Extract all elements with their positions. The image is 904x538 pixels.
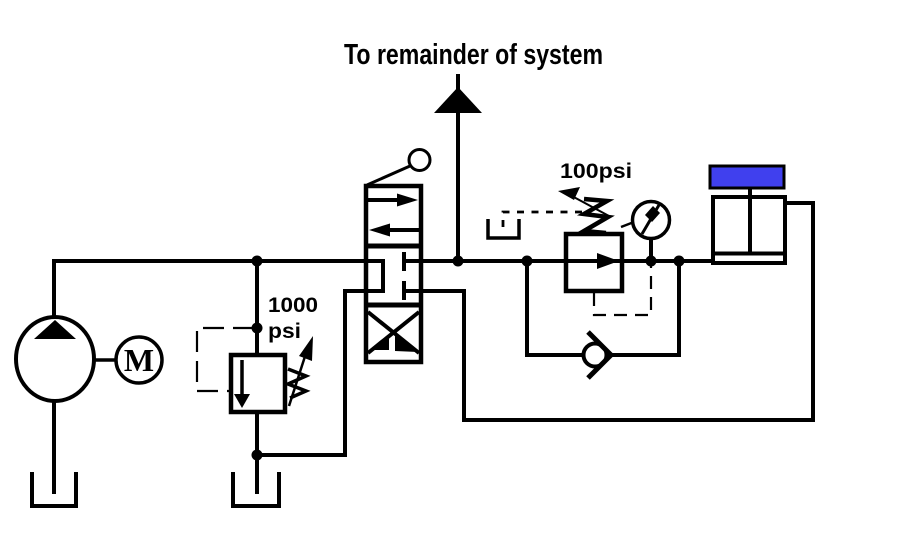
tank T3 (reducing valve drain) bbox=[488, 219, 519, 238]
drain line (dashed) of reducing valve bbox=[503, 212, 582, 231]
svg-text:1000: 1000 bbox=[268, 293, 318, 317]
arrowhead to remainder of system bbox=[434, 87, 482, 113]
wire: main line right of valve to cylinder cap port bbox=[421, 259, 713, 263]
relief valve adjustment arrow bbox=[289, 336, 313, 406]
directional valve DV1 lever bbox=[367, 150, 430, 186]
wire: pump to motor bbox=[94, 358, 116, 362]
node: bypass branch left bbox=[522, 256, 533, 267]
label: To remainder of system bbox=[344, 39, 603, 71]
label: 1000 psi bbox=[268, 293, 318, 343]
wire: bypass line with check valve bbox=[527, 261, 584, 355]
wire: main supply line left of valve bbox=[255, 259, 366, 263]
directional valve DV1 body bbox=[366, 186, 421, 362]
svg-text:To remainder of system: To remainder of system bbox=[344, 39, 603, 71]
label: 100psi bbox=[560, 159, 632, 183]
DV1 center position: blocked port A bbox=[404, 252, 421, 271]
pressure reducing valve PRV1 body bbox=[566, 234, 622, 291]
relief valve RV1 bbox=[231, 355, 285, 412]
relief valve spring bbox=[288, 369, 306, 398]
wire: pump outlet to main line corner bbox=[54, 261, 257, 317]
wire: relief valve branch bbox=[255, 261, 259, 355]
pressure reducing valve PRV1 spring bbox=[584, 199, 608, 233]
wire: valve port B to cylinder rod end bbox=[421, 203, 813, 420]
cylinder CYL1 load (blue cap) bbox=[710, 166, 784, 188]
wire: relief valve outlet to tank bbox=[255, 412, 259, 494]
DV1 top position: flow arrow right bbox=[367, 194, 418, 207]
pilot line (dashed) to relief valve bbox=[197, 328, 254, 391]
wire: line to remainder of system bbox=[456, 74, 460, 261]
svg-text:M: M bbox=[124, 342, 154, 378]
DV1 center position: P-T bracket bbox=[366, 261, 383, 291]
electric motor M bbox=[116, 337, 162, 383]
node: bypass branch right bbox=[674, 256, 685, 267]
svg-text:100psi: 100psi bbox=[560, 159, 632, 183]
pump P1 bbox=[16, 317, 94, 401]
svg-text:psi: psi bbox=[268, 319, 301, 343]
tank T2 (relief and valve return) bbox=[233, 472, 279, 506]
wire: valve tank return to relief outlet node bbox=[257, 291, 366, 455]
wire: check valve to bypass right bbox=[611, 261, 679, 355]
tank T1 (pump suction) bbox=[32, 472, 76, 506]
PRV1 pilot line (dashed) bbox=[594, 264, 651, 315]
DV1 center position: blocked port B bbox=[404, 281, 421, 300]
cylinder CYL1 body bbox=[713, 188, 785, 263]
node: relief pilot tap bbox=[252, 323, 263, 334]
node: branch to remainder of system bbox=[453, 256, 464, 267]
wire: pump inlet to tank bbox=[52, 401, 56, 494]
wire: gauge stem bbox=[649, 239, 653, 261]
node: gauge junction bbox=[646, 256, 657, 267]
check valve CV1 bbox=[584, 332, 612, 378]
DV1 bottom position: crossed arrows bbox=[368, 312, 419, 353]
DV1 top position: flow arrow left bbox=[369, 224, 420, 237]
node: relief outlet / valve tank return junction bbox=[252, 450, 263, 461]
pressure gauge G1 bbox=[621, 202, 670, 239]
PRV1 adjustment arrow bbox=[558, 187, 609, 216]
node: relief branch junction bbox=[252, 256, 263, 267]
